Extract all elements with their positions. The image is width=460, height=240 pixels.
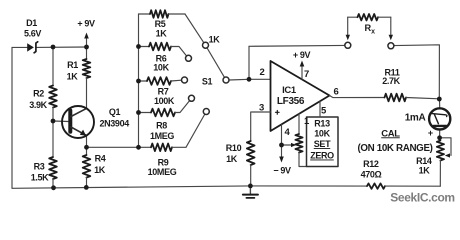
svg-text:7: 7: [304, 69, 309, 80]
svg-text:(ON 10K RANGE): (ON 10K RANGE): [357, 143, 432, 154]
svg-text:− 9V: − 9V: [273, 166, 291, 176]
svg-text:R7: R7: [158, 87, 169, 97]
svg-text:R10: R10: [226, 143, 242, 153]
svg-text:+ 9V: + 9V: [293, 50, 311, 60]
svg-text:IC1: IC1: [282, 85, 297, 96]
svg-text:R4: R4: [95, 154, 106, 164]
svg-text:1K: 1K: [419, 166, 431, 176]
svg-text:R12: R12: [363, 159, 379, 169]
svg-text:1.5K: 1.5K: [31, 173, 49, 183]
svg-text:10K: 10K: [153, 63, 169, 73]
svg-text:LF356: LF356: [277, 96, 305, 107]
svg-text:CAL: CAL: [381, 128, 400, 139]
svg-text:R1: R1: [67, 60, 78, 70]
svg-text:470Ω: 470Ω: [361, 170, 382, 180]
svg-text:3.9K: 3.9K: [29, 100, 47, 110]
svg-text:1K: 1K: [94, 165, 106, 175]
svg-text:1MEG: 1MEG: [150, 131, 174, 141]
svg-text:Q1: Q1: [109, 107, 121, 117]
svg-text:5.6V: 5.6V: [24, 28, 41, 38]
svg-text:R8: R8: [156, 121, 167, 131]
svg-text:R3: R3: [34, 162, 45, 172]
svg-text:+ 9V: + 9V: [77, 18, 95, 28]
svg-text:S1: S1: [202, 77, 213, 87]
svg-text:1mA: 1mA: [405, 113, 426, 124]
svg-text:2N3904: 2N3904: [99, 119, 129, 129]
svg-text:6: 6: [334, 87, 339, 98]
svg-text:1K: 1K: [67, 71, 79, 81]
svg-text:2: 2: [260, 67, 265, 78]
svg-text:D1: D1: [26, 18, 37, 28]
svg-text:+: +: [428, 128, 433, 138]
svg-text:ZERO: ZERO: [310, 151, 334, 161]
svg-text:100K: 100K: [154, 96, 175, 106]
svg-text:10MEG: 10MEG: [148, 167, 177, 177]
svg-text:1K: 1K: [209, 35, 221, 45]
svg-text:R2: R2: [33, 89, 44, 99]
svg-text:2.7K: 2.7K: [382, 76, 400, 86]
svg-text:3: 3: [259, 103, 264, 114]
svg-text:1K: 1K: [156, 29, 168, 39]
svg-text:SeekIC.com: SeekIC.com: [390, 191, 455, 205]
svg-text:R13: R13: [314, 119, 330, 129]
svg-text:R9: R9: [158, 157, 169, 167]
svg-text:R5: R5: [155, 19, 166, 29]
svg-text:SET: SET: [314, 139, 331, 149]
svg-text:1K: 1K: [226, 154, 238, 164]
svg-text:10K: 10K: [314, 129, 330, 139]
